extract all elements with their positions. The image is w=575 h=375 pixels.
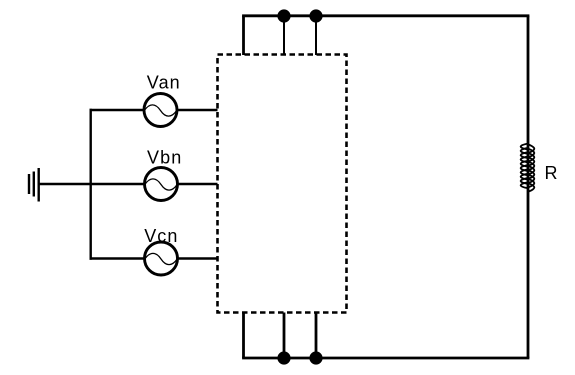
- junction dot: top bus / phase c: [309, 9, 322, 22]
- junction dot: bottom bus / phase c: [309, 351, 322, 364]
- wire: top horizontal bus: [242, 14, 529, 17]
- wire: right vertical (to resistor): [527, 16, 530, 358]
- source Van: [144, 94, 177, 127]
- dashed box: three-phase network block: [218, 55, 347, 313]
- ground: [29, 168, 39, 202]
- junction dot: top bus / phase b: [277, 9, 290, 22]
- source Vcn: [145, 242, 178, 275]
- wire: bottom-left drop from dashed box to bottom bus: [242, 313, 245, 359]
- wire: bottom horizontal bus: [242, 357, 529, 360]
- wire: bottom drop from dashed box to first bottom junction: [283, 313, 286, 359]
- svg-text:Vbn: Vbn: [147, 147, 182, 167]
- wire: left vertical bus (neutral): [89, 109, 91, 260]
- wire: Van row: [90, 109, 218, 111]
- junction dot: bottom bus / phase b: [277, 351, 290, 364]
- resistor R (scribble coil): [521, 144, 535, 193]
- wire: bottom drop from dashed box to second bottom junction: [315, 313, 318, 359]
- source Vbn: [145, 168, 178, 201]
- wire: top drop from first junction into dashed box (phase b): [283, 16, 285, 55]
- wire: top drop from second junction into dashed box (phase c): [315, 16, 317, 55]
- wire: top-left drop from top bus into dashed box (phase a): [242, 16, 245, 55]
- wire: Vcn row: [90, 257, 218, 259]
- svg-text:R: R: [545, 163, 558, 183]
- svg-text:Vcn: Vcn: [144, 226, 178, 246]
- wire: ground to Vbn (node n): [39, 183, 218, 185]
- svg-text:Van: Van: [147, 72, 181, 92]
